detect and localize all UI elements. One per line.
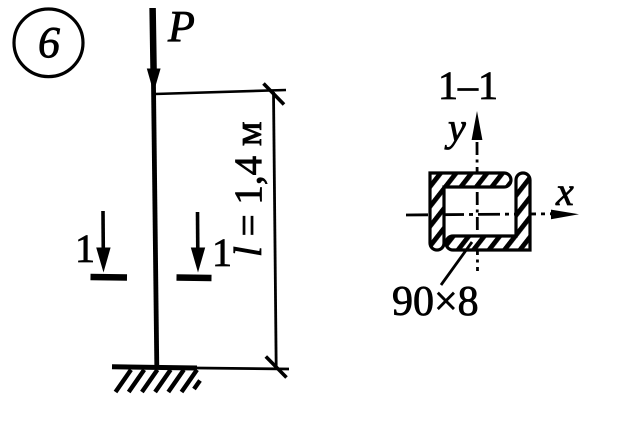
ground extension line to dimension — [197, 368, 289, 369]
x axis arrowhead — [551, 210, 579, 220]
y axis centerline — [476, 142, 479, 271]
column (vertical bar) — [153, 8, 157, 367]
section piece 1: left wall + top flange (bent plate) — [430, 173, 511, 250]
right section trace bar — [177, 274, 212, 281]
svg-text:1: 1 — [212, 230, 232, 275]
svg-text:90×8: 90×8 — [392, 279, 479, 325]
right section mark: arrow shaft — [196, 212, 200, 252]
left section arrowhead — [96, 248, 110, 273]
svg-text:l = 1,4 м: l = 1,4 м — [227, 121, 270, 257]
leader line for 90x8 — [441, 242, 472, 285]
badge circle with number 6 — [14, 9, 83, 77]
bottom dimension tick — [266, 357, 287, 378]
force P arrow shaft — [153, 8, 154, 72]
section piece 2: right wall + bottom flange (bent plate) — [446, 173, 530, 250]
svg-text:1–1: 1–1 — [438, 63, 498, 108]
force P arrowhead — [147, 69, 161, 93]
ground hatching — [116, 370, 201, 392]
left section arrow shaft — [101, 211, 105, 252]
top extension line — [155, 90, 286, 94]
ground line thick part — [112, 367, 197, 368]
left section trace bar — [91, 274, 128, 281]
right section arrowhead — [191, 248, 205, 273]
x axis centerline — [406, 214, 552, 215]
dimension line l — [274, 92, 277, 368]
y axis arrowhead — [472, 111, 483, 140]
svg-text:y: y — [444, 105, 466, 150]
svg-text:1: 1 — [75, 226, 95, 271]
top dimension tick — [264, 84, 285, 105]
svg-text:P: P — [167, 2, 195, 51]
svg-text:6: 6 — [38, 18, 60, 67]
svg-text:x: x — [555, 169, 574, 214]
